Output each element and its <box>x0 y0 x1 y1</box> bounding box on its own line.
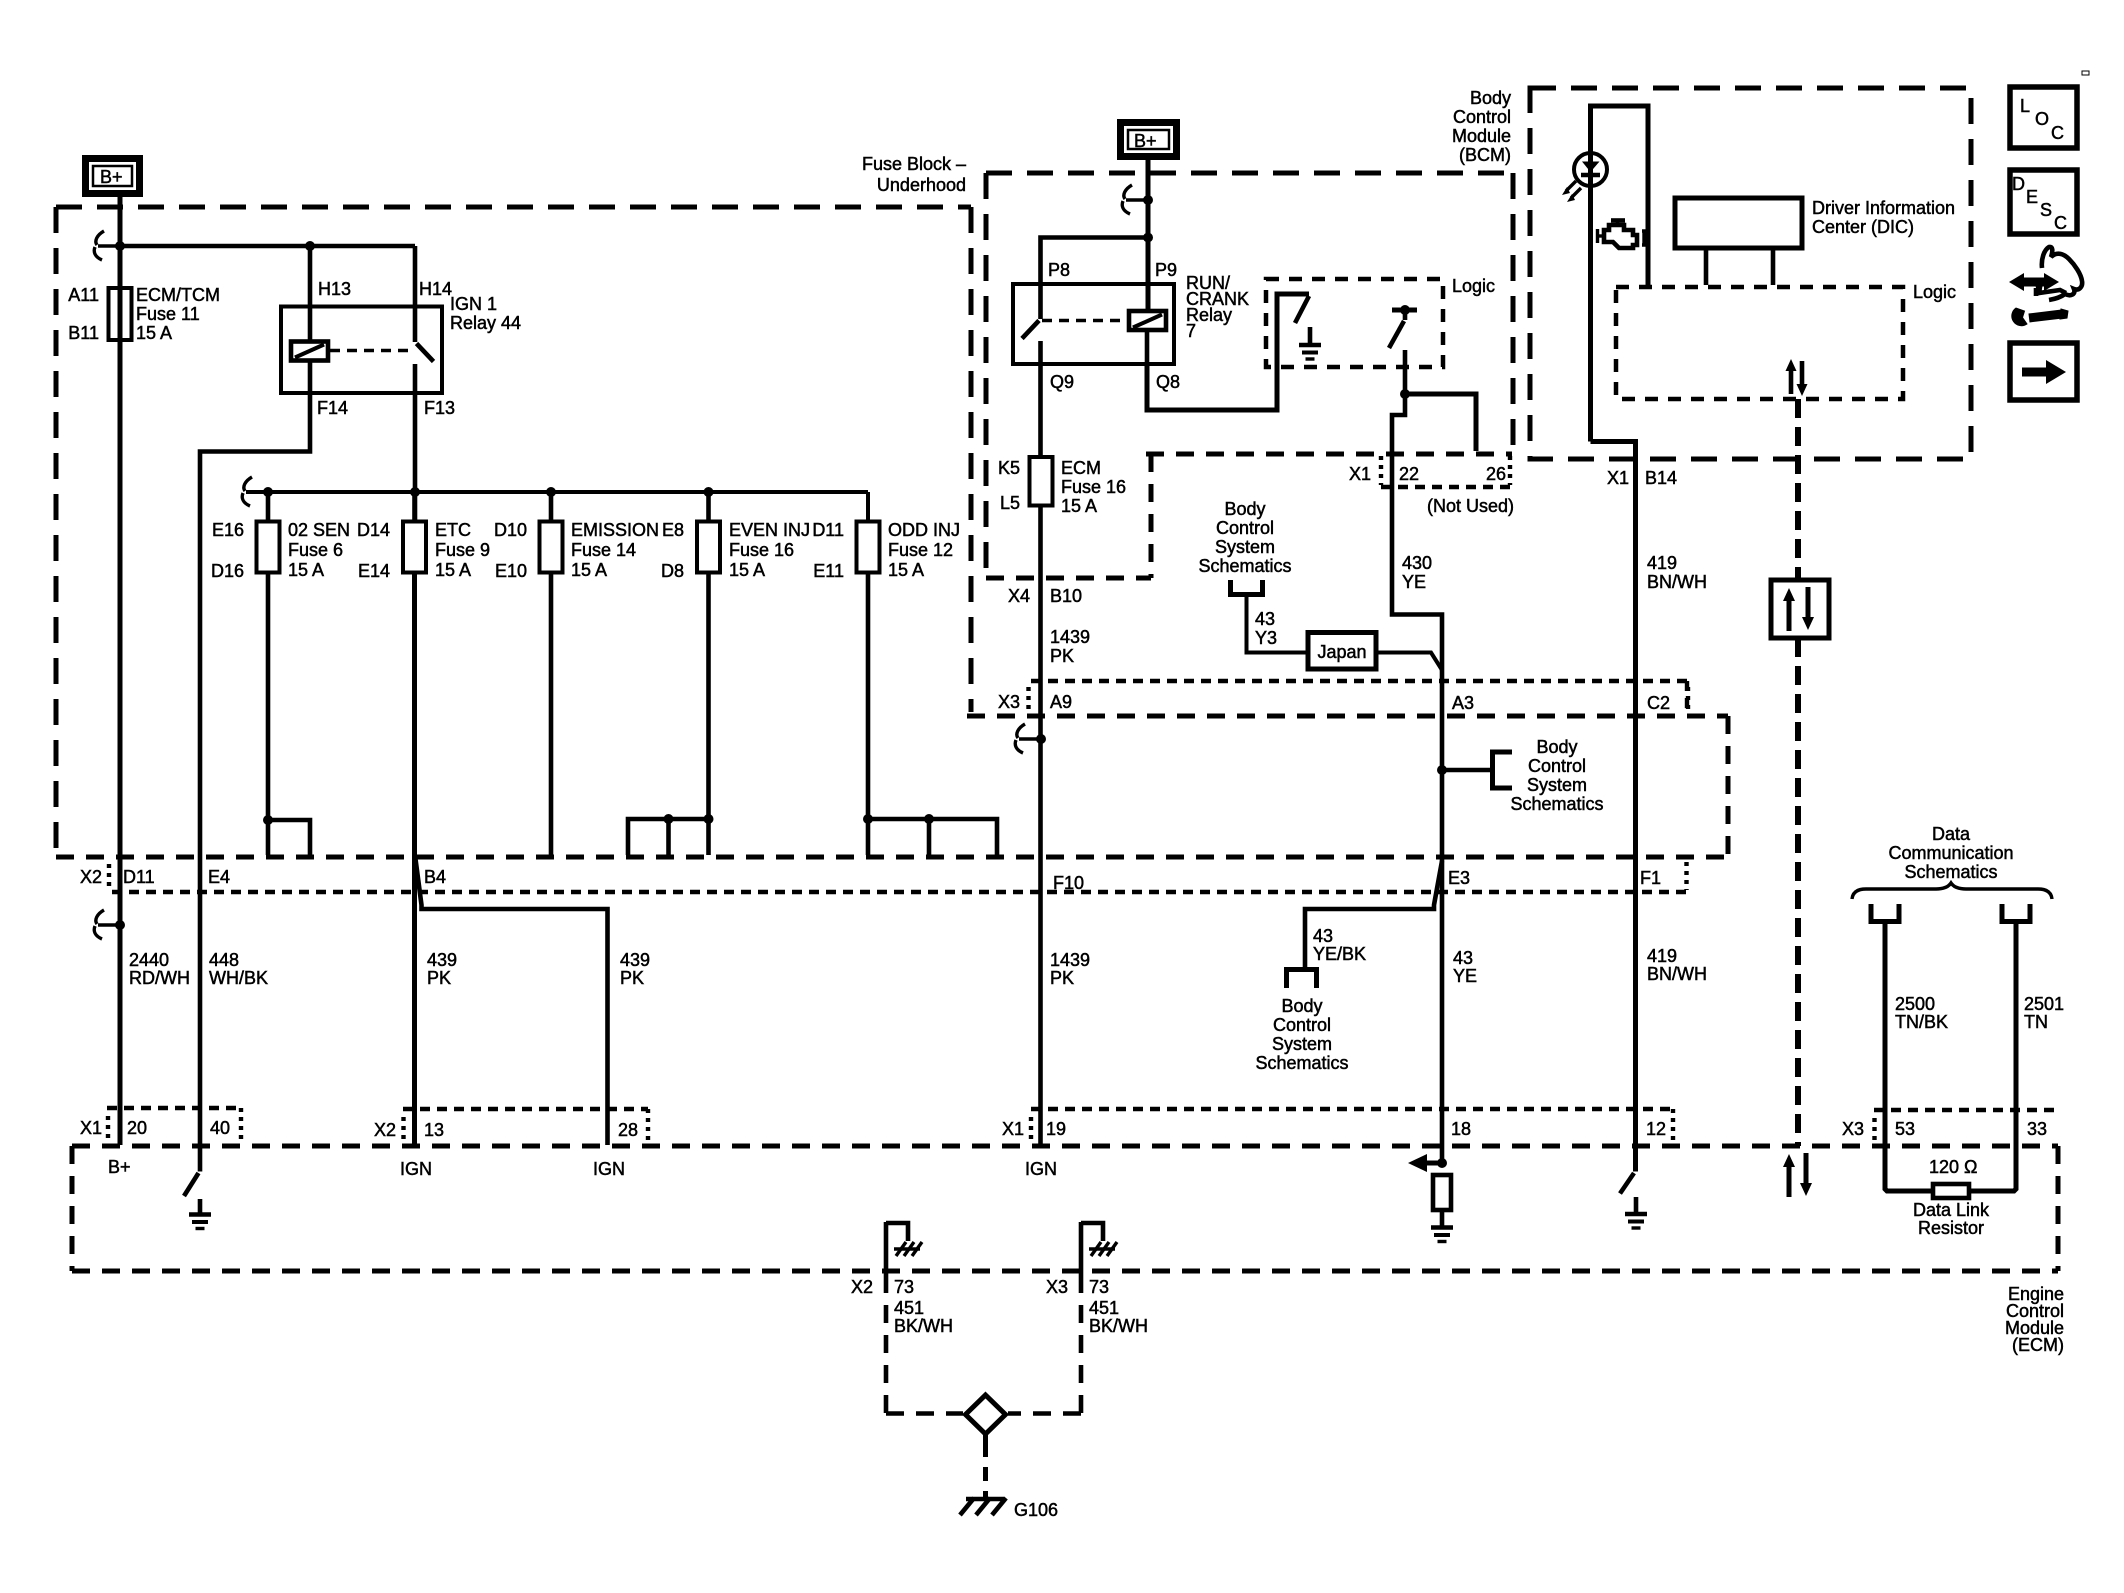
wire X2-73 dashed 451 <box>884 1275 889 1413</box>
svg-text:B+: B+ <box>108 1157 131 1177</box>
wire X3-73 solid <box>1079 1222 1084 1275</box>
wire bus corner to ODD INJ fuse <box>866 492 870 522</box>
svg-text:Japan: Japan <box>1317 642 1366 662</box>
relay 7 coil <box>1129 311 1166 330</box>
svg-text:K5: K5 <box>998 458 1020 478</box>
ground G106 symbol <box>966 1497 1004 1502</box>
svg-text:System: System <box>1215 537 1275 557</box>
svg-text:13: 13 <box>424 1120 444 1140</box>
svg-text:2500: 2500 <box>1895 994 1935 1014</box>
fuse D14/E14 ETC Fuse 9 <box>403 522 426 573</box>
BCM logic dashed box <box>1616 287 1903 399</box>
svg-text:Module: Module <box>1452 126 1511 146</box>
body control schematics dashed box top <box>967 714 1728 719</box>
terminating arrow left <box>1427 1161 1442 1166</box>
logic ground switch blade <box>1295 296 1309 323</box>
svg-text:7: 7 <box>1186 321 1196 341</box>
svg-text:Fuse 9: Fuse 9 <box>435 540 490 560</box>
DIC leg right <box>1771 248 1776 285</box>
fuse bus horizontal <box>246 490 868 494</box>
fuse block right section inner vertical edge <box>1149 454 1154 578</box>
ECM left edge dashed <box>70 1146 75 1271</box>
fuse E16/D16 02 SEN Fuse 6 <box>257 522 280 573</box>
relay 44 switch blade <box>417 344 434 362</box>
fuse A11/B11 ECM/TCM Fuse 11 <box>109 288 132 340</box>
logic dashed box (BCM relay control) <box>1266 279 1443 367</box>
wire EMISSION output <box>549 573 554 856</box>
svg-text:15 A: 15 A <box>571 560 607 580</box>
svg-text:X3: X3 <box>1842 1119 1864 1139</box>
svg-text:X2: X2 <box>374 1120 396 1140</box>
svg-text:Body: Body <box>1224 499 1265 519</box>
svg-text:BK/WH: BK/WH <box>894 1316 953 1336</box>
svg-text:Center (DIC): Center (DIC) <box>1812 217 1914 237</box>
pin 40 ground symbol <box>198 1199 203 1214</box>
fuse K5/L5 ECM Fuse 16 <box>1030 457 1053 506</box>
svg-text:C: C <box>2051 123 2064 143</box>
svg-text:Relay 44: Relay 44 <box>450 313 521 333</box>
svg-text:Fuse 6: Fuse 6 <box>288 540 343 560</box>
wire BCM indicator loop <box>1591 106 1649 442</box>
LED diode symbol <box>1582 162 1600 173</box>
svg-text:IGN: IGN <box>400 1159 432 1179</box>
body control schematics dashed box right <box>1726 716 1731 857</box>
svg-text:451: 451 <box>894 1298 924 1318</box>
wire ODDINJ splice stub <box>927 819 932 855</box>
junction dot logic driver <box>1400 305 1410 315</box>
splice clip on fuse bus left end <box>263 487 273 497</box>
svg-text:X3: X3 <box>998 692 1020 712</box>
BCM logic down arrow <box>1800 361 1805 387</box>
wire 430 YE zigzag to pin 22 <box>1392 394 1442 1163</box>
svg-text:P8: P8 <box>1048 260 1070 280</box>
relay 7 switch blade <box>1022 321 1039 339</box>
svg-text:YE: YE <box>1453 966 1477 986</box>
svg-text:B14: B14 <box>1645 468 1677 488</box>
wire to pin 26 not used <box>1405 394 1476 451</box>
wire 419 BN/WH run <box>1591 442 1636 1172</box>
svg-text:43: 43 <box>1255 609 1275 629</box>
svg-text:Logic: Logic <box>1913 282 1956 302</box>
svg-text:Communication: Communication <box>1888 843 2013 863</box>
relay 7 coil-switch dashed link <box>1042 319 1127 323</box>
wire ODD INJ output <box>866 573 871 856</box>
separator X1/20 <box>106 1116 110 1138</box>
svg-text:WH/BK: WH/BK <box>209 968 268 988</box>
svg-text:439: 439 <box>620 950 650 970</box>
pointer bracket top (43 Y3) <box>1231 580 1263 595</box>
svg-text:D10: D10 <box>494 520 527 540</box>
ECM bottom edge dashed <box>72 1269 2058 1274</box>
svg-text:B11: B11 <box>68 323 99 343</box>
tiny mark <box>2082 71 2089 75</box>
wire P9 through coil <box>1145 331 1150 364</box>
svg-text:F13: F13 <box>424 398 455 418</box>
power symbol B+ (left) <box>86 159 140 194</box>
wire EVENINJ splice loop <box>628 819 709 855</box>
svg-text:BN/WH: BN/WH <box>1647 572 1707 592</box>
svg-text:Control: Control <box>1528 756 1586 776</box>
svg-text:F14: F14 <box>317 398 348 418</box>
connector band X1 22/26 dotted <box>1379 456 1383 485</box>
separator X2/D11 <box>107 864 111 888</box>
Japan box <box>1308 633 1376 670</box>
svg-text:X4: X4 <box>1008 586 1030 606</box>
pin 12 ground symbol <box>1634 1197 1639 1213</box>
svg-text:Control: Control <box>1216 518 1274 538</box>
icon LOC box <box>2010 87 2077 148</box>
svg-text:System: System <box>1272 1034 1332 1054</box>
fuse block right section mid horizontal edge <box>1146 452 1512 457</box>
svg-text:E16: E16 <box>212 520 244 540</box>
svg-text:X3: X3 <box>1046 1277 1068 1297</box>
svg-text:(ECM): (ECM) <box>2012 1335 2064 1355</box>
wire 439 PK pin13 run <box>412 573 417 1146</box>
svg-text:A9: A9 <box>1050 692 1072 712</box>
svg-text:H14: H14 <box>419 279 452 299</box>
X2-73 pigtail bracket <box>886 1223 908 1241</box>
wire 43 YE/BK branch <box>1305 861 1442 967</box>
splice clip on 2440 wire <box>115 920 125 930</box>
pin 12 ground switch blade <box>1620 1173 1634 1194</box>
LED indicator circle <box>1574 153 1607 186</box>
terminal cup 2500 <box>1871 904 1899 922</box>
fuse E8/D8 EVEN INJ Fuse 16 <box>697 522 720 573</box>
junction dot bus/EVENINJ <box>704 487 714 497</box>
connector band S2 dotted <box>403 1107 648 1111</box>
svg-text:419: 419 <box>1647 553 1677 573</box>
svg-text:TN/BK: TN/BK <box>1895 1012 1948 1032</box>
svg-text:B4: B4 <box>424 867 446 887</box>
connector row A9 fine dotted <box>1031 679 1687 683</box>
wire bus to EVEN INJ fuse <box>706 492 711 522</box>
svg-text:PK: PK <box>427 968 451 988</box>
svg-text:BN/WH: BN/WH <box>1647 964 1707 984</box>
wire H13 inside relay <box>308 307 313 342</box>
junction dot 430/26 <box>1400 389 1410 399</box>
separator after F1 <box>1684 862 1688 890</box>
svg-text:Fuse 16: Fuse 16 <box>729 540 794 560</box>
svg-text:A11: A11 <box>68 285 99 305</box>
svg-text:43: 43 <box>1453 948 1473 968</box>
svg-text:ETC: ETC <box>435 520 471 540</box>
wire bus to ETC fuse <box>412 492 417 522</box>
fuse D11/E11 ODD INJ Fuse 12 <box>857 522 880 573</box>
wire branch to IGN1 relay <box>120 244 415 249</box>
svg-text:A3: A3 <box>1452 693 1474 713</box>
separator X3/A9 <box>1026 687 1030 712</box>
ECM serial data down arrow <box>1804 1153 1809 1186</box>
wire 02 SEN output <box>266 573 271 856</box>
junction dot F13/bus <box>410 487 420 497</box>
wire bus to 02 SEN fuse <box>266 492 271 522</box>
connector row thick dashed line y=857 <box>56 855 1728 860</box>
splice clip on 1439 wire <box>1036 734 1046 744</box>
svg-text:Driver Information: Driver Information <box>1812 198 1955 218</box>
serial data dashed wire lower <box>1795 638 1801 1146</box>
serial data dashed wire upper <box>1795 399 1801 580</box>
serial data box up arrow <box>1787 598 1792 631</box>
wire resistor to ground <box>1440 1210 1445 1227</box>
svg-text:Schematics: Schematics <box>1904 862 1997 882</box>
svg-text:X2: X2 <box>851 1277 873 1297</box>
svg-text:ECM/TCM: ECM/TCM <box>136 285 220 305</box>
svg-text:F1: F1 <box>1640 868 1661 888</box>
wire H13 down to relay <box>308 246 313 306</box>
svg-text:20: 20 <box>127 1118 147 1138</box>
svg-text:Y3: Y3 <box>1255 628 1277 648</box>
svg-text:ECM: ECM <box>1061 458 1101 478</box>
ECM serial data up arrow <box>1787 1164 1792 1197</box>
svg-text:430: 430 <box>1402 553 1432 573</box>
svg-text:Q9: Q9 <box>1050 372 1074 392</box>
logic ground symbol <box>1308 327 1313 343</box>
svg-text:Logic: Logic <box>1452 276 1495 296</box>
svg-text:E14: E14 <box>358 561 390 581</box>
fuse block right section left edge <box>984 173 989 578</box>
svg-text:YE: YE <box>1402 572 1426 592</box>
dashed wire to splice left <box>886 1411 963 1416</box>
ECM top edge dashed <box>72 1144 2058 1149</box>
svg-text:439: 439 <box>427 950 457 970</box>
svg-text:D11: D11 <box>123 867 155 887</box>
svg-text:451: 451 <box>1089 1298 1119 1318</box>
svg-text:Control: Control <box>1453 107 1511 127</box>
DIC box <box>1675 198 1802 248</box>
svg-text:448: 448 <box>209 950 239 970</box>
fuse block right section top edge <box>986 171 1513 176</box>
svg-text:Data: Data <box>1932 824 1971 844</box>
svg-text:EMISSION: EMISSION <box>571 520 659 540</box>
svg-text:Fuse 16: Fuse 16 <box>1061 477 1126 497</box>
wire 2500 TN/BK <box>1885 922 1933 1192</box>
separator X1/19 <box>1029 1117 1033 1139</box>
svg-text:C: C <box>2054 213 2067 233</box>
relay RUN/CRANK Relay 7 box <box>1013 284 1174 364</box>
svg-text:L5: L5 <box>1000 493 1020 513</box>
wire to BCSS pointer right <box>1442 768 1490 773</box>
svg-text:Control: Control <box>1273 1015 1331 1035</box>
svg-text:IGN: IGN <box>1025 1159 1057 1179</box>
junction dot ODDINJ loop a <box>863 814 873 824</box>
logic driver blade <box>1389 321 1404 348</box>
svg-text:E11: E11 <box>813 561 844 581</box>
connector row fine dotted line y=892 <box>112 890 1686 894</box>
svg-text:02 SEN: 02 SEN <box>288 520 350 540</box>
svg-text:X2: X2 <box>80 867 102 887</box>
svg-text:Body: Body <box>1536 737 1577 757</box>
fuse block right section bottom edge <box>986 576 1151 581</box>
logic driver switch bar <box>1392 308 1417 313</box>
BCM dashed box <box>1530 88 1971 459</box>
connector band S3 dotted <box>1031 1107 1673 1111</box>
wire P8 branch <box>1041 238 1149 285</box>
resistor (pull-down) <box>1433 1175 1451 1210</box>
svg-text:Body: Body <box>1281 996 1322 1016</box>
fuse block underhood box (left section) top edge <box>56 205 971 210</box>
svg-text:Body: Body <box>1470 88 1511 108</box>
wire X3-73 dashed 451 <box>1079 1275 1084 1413</box>
svg-text:419: 419 <box>1647 946 1677 966</box>
svg-text:X1: X1 <box>1349 464 1371 484</box>
separator X2/13 <box>401 1117 405 1139</box>
wire splice to G106 <box>983 1434 988 1443</box>
svg-text:120 Ω: 120 Ω <box>1929 1157 1978 1177</box>
junction dot P8 branch <box>1143 233 1153 243</box>
svg-text:E3: E3 <box>1448 868 1470 888</box>
svg-text:B+: B+ <box>1134 131 1157 151</box>
icon DESC box <box>2010 170 2077 234</box>
svg-text:Schematics: Schematics <box>1198 556 1291 576</box>
connector band S1 dotted <box>107 1106 241 1110</box>
svg-text:22: 22 <box>1399 464 1419 484</box>
splice diamond <box>966 1395 1006 1434</box>
svg-text:1439: 1439 <box>1050 950 1090 970</box>
fuse block underhood box right edge <box>969 207 974 712</box>
relay IGN 1 Relay 44 box <box>281 307 442 394</box>
BCM logic up arrow <box>1789 368 1794 394</box>
svg-text:X1: X1 <box>1607 468 1629 488</box>
wire 43 Y3 to Japan box <box>1247 596 1309 653</box>
serial data box down arrow <box>1806 587 1811 620</box>
svg-text:2440: 2440 <box>129 950 169 970</box>
svg-text:RD/WH: RD/WH <box>129 968 190 988</box>
svg-text:15 A: 15 A <box>288 560 324 580</box>
svg-text:1439: 1439 <box>1050 627 1090 647</box>
svg-text:2501: 2501 <box>2024 994 2064 1014</box>
svg-text:40: 40 <box>210 1118 230 1138</box>
fuse block right section right edge <box>1511 173 1516 451</box>
ECM right edge dashed <box>2056 1146 2061 1271</box>
svg-text:X1: X1 <box>80 1118 102 1138</box>
svg-text:C2: C2 <box>1647 693 1670 713</box>
relay 44 coil <box>291 342 328 361</box>
splice clip on middle B+ wire <box>1143 195 1153 205</box>
connector band S4 dotted <box>1874 1108 2056 1112</box>
svg-text:E4: E4 <box>208 867 230 887</box>
svg-text:O: O <box>2035 109 2049 129</box>
svg-text:19: 19 <box>1046 1119 1066 1139</box>
svg-text:12: 12 <box>1646 1119 1666 1139</box>
serial data box <box>1771 580 1829 638</box>
svg-text:E10: E10 <box>495 561 527 581</box>
pin 40 ground switch blade <box>184 1173 199 1196</box>
data link resistor <box>1933 1184 1969 1198</box>
X3-73 pigtail bracket <box>1081 1223 1103 1241</box>
svg-text:Resistor: Resistor <box>1918 1218 1984 1238</box>
svg-text:H13: H13 <box>318 279 351 299</box>
svg-text:P9: P9 <box>1155 260 1177 280</box>
svg-text:Q8: Q8 <box>1156 372 1180 392</box>
svg-text:53: 53 <box>1895 1119 1915 1139</box>
junction dot arrow/resistor <box>1437 1158 1447 1168</box>
svg-text:D: D <box>2012 174 2025 194</box>
terminal cup 2501 <box>2002 904 2030 922</box>
svg-text:Fuse 11: Fuse 11 <box>136 304 200 324</box>
power symbol B+ (middle) <box>1121 123 1177 157</box>
wire EVENINJ splice stub <box>666 819 671 855</box>
svg-text:15 A: 15 A <box>136 323 172 343</box>
wire B+ feed middle <box>1146 156 1151 311</box>
svg-text:Underhood: Underhood <box>877 175 966 195</box>
wire X2-73 solid <box>884 1222 889 1275</box>
svg-text:ODD INJ: ODD INJ <box>888 520 960 540</box>
fuse block underhood box left edge <box>54 207 59 852</box>
svg-text:PK: PK <box>1050 968 1074 988</box>
separator after C2 <box>1686 687 1690 712</box>
wire F14 inside relay <box>308 361 313 394</box>
svg-text:(BCM): (BCM) <box>1459 145 1511 165</box>
fuse D10/E10 EMISSION Fuse 14 <box>540 522 563 573</box>
svg-text:D14: D14 <box>357 520 390 540</box>
wire H14 down to relay <box>413 246 418 306</box>
svg-text:G106: G106 <box>1014 1500 1058 1520</box>
wire 439 PK branch slant B4 <box>416 859 608 1145</box>
wire F14 to 448 run (through E4 pin 40) <box>200 393 310 1172</box>
relay 44 switch top stub <box>413 307 418 343</box>
wire ODDINJ splice loop <box>868 819 997 855</box>
wire 1439 PK run <box>1038 506 1043 1146</box>
svg-text:Fuse 12: Fuse 12 <box>888 540 953 560</box>
svg-text:BK/WH: BK/WH <box>1089 1316 1148 1336</box>
icon right arrow box <box>2010 343 2077 400</box>
wire EVEN INJ output <box>706 573 711 856</box>
junction dot EVENINJ loop b <box>704 814 714 824</box>
pointer bracket right <box>1493 752 1513 788</box>
svg-text:43: 43 <box>1313 926 1333 946</box>
wire Q8 to logic <box>1147 294 1309 410</box>
svg-text:B+: B+ <box>100 167 123 187</box>
wire B+ feed left (2440 circuit) <box>118 193 123 1145</box>
data comm brace <box>1852 883 2052 899</box>
svg-text:15 A: 15 A <box>435 560 471 580</box>
svg-text:X1: X1 <box>1002 1119 1024 1139</box>
dashed wire to splice right <box>1008 1411 1081 1416</box>
svg-text:S: S <box>2040 200 2052 220</box>
junction dot 02SEN splice <box>263 815 273 825</box>
svg-text:28: 28 <box>618 1120 638 1140</box>
svg-text:D11: D11 <box>812 520 844 540</box>
svg-text:YE/BK: YE/BK <box>1313 944 1366 964</box>
relay 44 coil-switch dashed link <box>330 349 413 353</box>
svg-text:E8: E8 <box>662 520 684 540</box>
svg-text:PK: PK <box>1050 646 1074 666</box>
svg-text:EVEN INJ: EVEN INJ <box>729 520 810 540</box>
svg-text:PK: PK <box>620 968 644 988</box>
LED light arrows <box>1566 181 1576 191</box>
svg-text:D8: D8 <box>661 561 684 581</box>
svg-text:15 A: 15 A <box>1061 496 1097 516</box>
svg-text:L: L <box>2020 96 2030 116</box>
icon vehicle/wrench <box>2021 278 2047 287</box>
svg-text:Schematics: Schematics <box>1255 1053 1348 1073</box>
wire Japan to A3 <box>1376 653 1442 671</box>
svg-text:IGN 1: IGN 1 <box>450 294 497 314</box>
svg-text:Data Link: Data Link <box>1913 1200 1990 1220</box>
svg-text:IGN: IGN <box>593 1159 625 1179</box>
svg-text:B10: B10 <box>1050 586 1082 606</box>
svg-text:(Not Used): (Not Used) <box>1427 496 1514 516</box>
svg-text:73: 73 <box>1089 1277 1109 1297</box>
svg-text:E: E <box>2026 187 2038 207</box>
svg-text:F10: F10 <box>1053 873 1084 893</box>
svg-text:15 A: 15 A <box>729 560 765 580</box>
MIL engine icon <box>1604 225 1637 248</box>
svg-text:Fuse 14: Fuse 14 <box>571 540 636 560</box>
svg-text:33: 33 <box>2027 1119 2047 1139</box>
svg-text:73: 73 <box>894 1277 914 1297</box>
wire bus to EMISSION fuse <box>549 492 554 522</box>
